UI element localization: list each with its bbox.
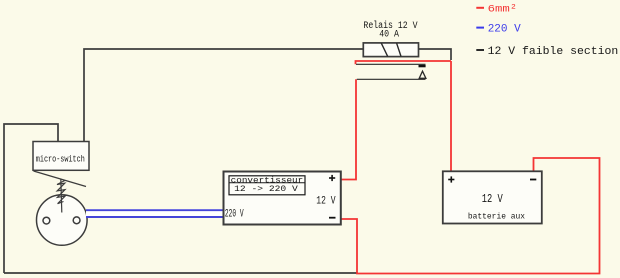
wire: red 6mm2 from relay contact output down to convertisseur + [341,79,356,179]
legend red dash [476,7,484,9]
battery - terminal mark [530,179,536,181]
legend blue dash [476,27,484,29]
convertisseur - terminal mark [329,217,336,219]
convertisseur + terminal mark [329,175,335,181]
battery BT1 body [443,171,542,223]
relay K1 diagonal 1 [381,43,387,56]
svg-text:micro-switch: micro-switch [36,155,85,165]
relay contact lower bar [357,78,426,80]
convertisseur name plate box [229,176,305,195]
relay contact tip (filled block) [419,65,426,67]
relay K1 diagonal 2 [397,43,401,56]
svg-text:batterie aux: batterie aux [468,213,525,222]
micro-switch S1 body [33,142,89,171]
legend black dash [476,49,484,51]
socket P1 right pin hole [73,217,80,224]
wire: bottom black rail to junction with red rail [4,272,357,274]
wire: red 6mm2 from convertisseur - down to bottom red rail [341,158,600,274]
svg-text:12 -> 220 V: 12 -> 220 V [234,184,299,194]
actuator spring zigzag [57,179,65,213]
battery + terminal mark [448,176,454,182]
svg-text:6mm²: 6mm² [488,4,518,15]
relay contact moving arrow (triangle) [419,71,426,78]
relay K1 coil box [363,43,418,57]
socket P1 left pin hole [43,217,50,224]
socket P1 outer circle [37,195,88,246]
relay contact fixed bar (thin) [356,63,426,65]
svg-text:220 V: 220 V [225,208,244,220]
svg-text:40 A: 40 A [379,30,399,41]
svg-text:220 V: 220 V [488,23,521,35]
convertisseur U1 body [224,172,341,225]
wire: red 6mm2 junction down to battery + [450,61,452,171]
wire: micro-switch right pin up and across to relay left terminal [84,49,363,142]
220V twin wire (blue pair with white core) [86,209,224,218]
wire: red 6mm2 from junction to relay contact (top red run) [356,61,452,64]
svg-text:12 V faible section: 12 V faible section [488,46,619,58]
wire: micro-switch left pin up, left, down to bottom rail [4,124,58,273]
svg-text:12 V: 12 V [482,192,503,206]
svg-text:12 V: 12 V [316,196,335,208]
micro-switch lever arm [34,171,87,187]
wire: relay right terminal to red junction (black short run) [419,49,452,60]
